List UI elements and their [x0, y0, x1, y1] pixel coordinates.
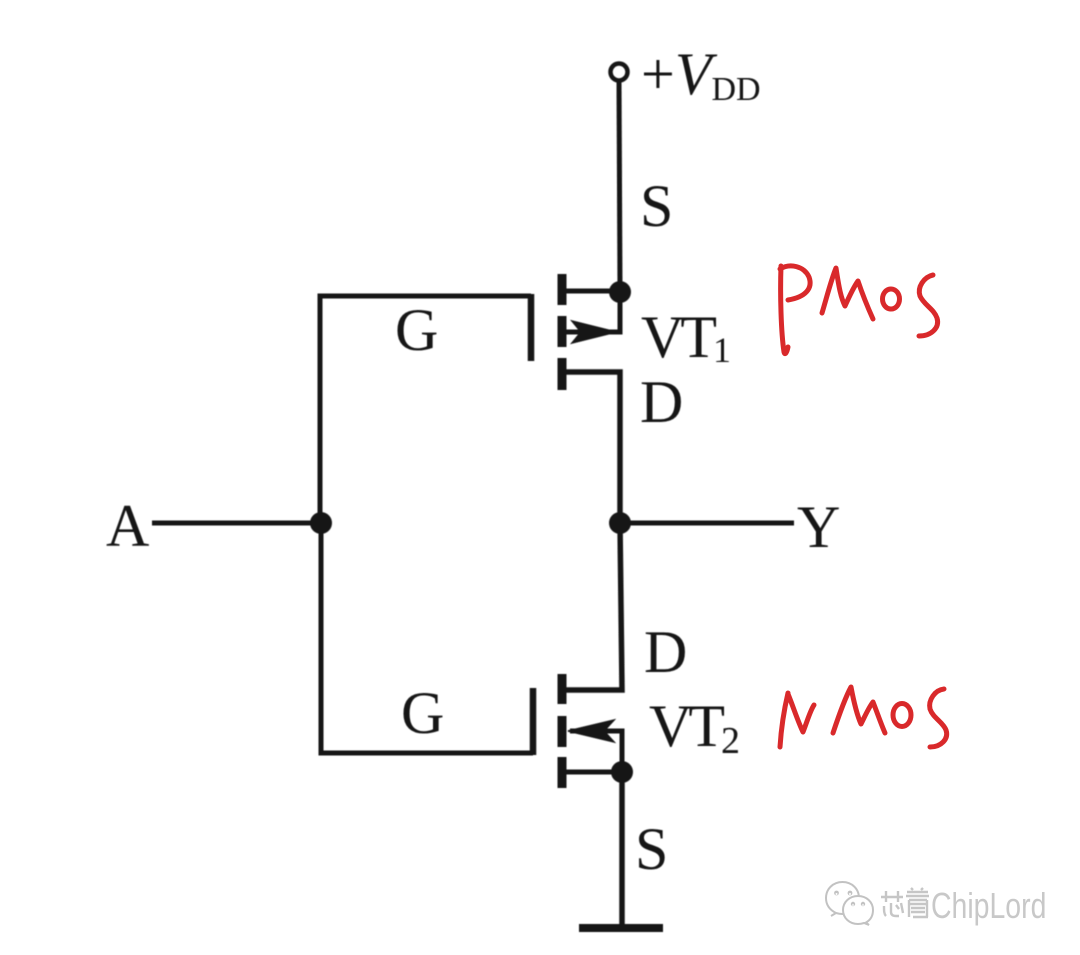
svg-text:VT2: VT2: [649, 693, 738, 762]
svg-text:G: G: [395, 297, 438, 363]
svg-text:D: D: [644, 619, 687, 685]
svg-text:+VDD: +VDD: [641, 41, 761, 108]
svg-text:ChipLord: ChipLord: [931, 886, 1046, 926]
svg-text:G: G: [401, 680, 444, 746]
svg-text:VT1: VT1: [641, 304, 729, 370]
svg-text:S: S: [635, 816, 668, 882]
svg-text:D: D: [640, 369, 683, 435]
svg-text:S: S: [640, 173, 673, 239]
svg-text:A: A: [106, 493, 149, 559]
svg-text:Y: Y: [797, 494, 840, 560]
